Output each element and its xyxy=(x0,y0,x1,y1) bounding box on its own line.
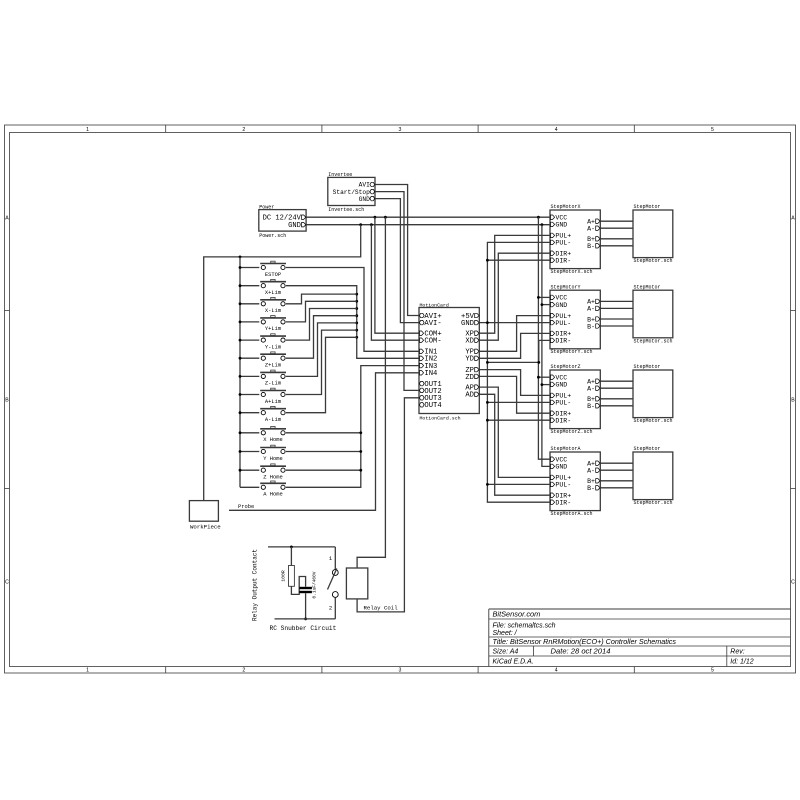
sheet MotionCard xyxy=(419,302,479,421)
svg-text:StepMotor: StepMotor xyxy=(634,284,661,290)
switch Z Home xyxy=(260,464,286,481)
svg-text:MotionCard: MotionCard xyxy=(420,302,449,308)
svg-text:VCC: VCC xyxy=(555,215,567,222)
svg-text:Z+Lim: Z+Lim xyxy=(265,363,281,369)
svg-text:StepMotorA: StepMotorA xyxy=(551,446,581,452)
wire XD to X DIR+ xyxy=(479,253,550,340)
wire YP to Y PUL+ xyxy=(479,316,550,352)
wire Z-Lim tap xyxy=(286,323,357,377)
wire Probe to IN4 xyxy=(229,373,419,511)
wire relay output contact bottom rail xyxy=(275,618,336,620)
svg-text:3: 3 xyxy=(399,127,402,133)
relay output contact switch xyxy=(328,547,339,619)
svg-text:StepMotor: StepMotor xyxy=(634,364,661,370)
svg-text:PUL+: PUL+ xyxy=(555,475,571,482)
wire limit switch bus to IN2 xyxy=(286,286,419,359)
wire Invertee AVI to AVI+ xyxy=(375,185,419,316)
svg-text:GND: GND xyxy=(555,222,567,229)
svg-text:1: 1 xyxy=(86,127,89,133)
svg-text:KiCad E.D.A.: KiCad E.D.A. xyxy=(493,659,534,666)
wire Invertee GND to AVI- xyxy=(375,199,419,323)
svg-text:B-: B- xyxy=(587,243,595,250)
svg-text:A+: A+ xyxy=(587,461,595,468)
svg-text:StepMotor.sch: StepMotor.sch xyxy=(634,418,673,424)
svg-text:X-Lim: X-Lim xyxy=(265,308,281,314)
svg-text:DIR-: DIR- xyxy=(555,258,571,265)
wire Y-Lim tap xyxy=(286,309,357,341)
wire COM+ to +12/24V xyxy=(375,217,419,333)
svg-text:StepMotor.sch: StepMotor.sch xyxy=(634,500,673,506)
svg-text:StepMotorZ.sch: StepMotorZ.sch xyxy=(551,429,593,435)
switch X Home xyxy=(260,427,286,444)
svg-text:A+: A+ xyxy=(587,299,595,306)
svg-text:5: 5 xyxy=(711,127,714,133)
svg-text:Size: A4: Size: A4 xyxy=(493,649,519,656)
switch A Home xyxy=(260,481,286,498)
switch Y Home xyxy=(260,445,286,462)
svg-text:PUL-: PUL- xyxy=(555,320,571,327)
switch Z+Lim xyxy=(260,352,286,369)
svg-text:1: 1 xyxy=(329,555,333,562)
svg-text:A-Lim: A-Lim xyxy=(265,417,281,423)
svg-text:PUL+: PUL+ xyxy=(555,313,571,320)
svg-text:B: B xyxy=(5,398,9,404)
svg-text:COM-: COM- xyxy=(424,338,441,346)
svg-text:VCC: VCC xyxy=(555,457,567,464)
sheet StepMotorX xyxy=(550,204,600,275)
wire motor A A+/A-/B+/B- xyxy=(600,463,633,488)
svg-text:2: 2 xyxy=(242,127,245,133)
svg-text:X Home: X Home xyxy=(263,437,282,443)
svg-text:1: 1 xyxy=(86,668,89,674)
svg-text:DIR+: DIR+ xyxy=(555,251,571,258)
svg-text:Start/Stop: Start/Stop xyxy=(333,189,370,196)
svg-text:RC Snubber Circuit: RC Snubber Circuit xyxy=(270,625,337,632)
svg-text:StepMotorA.sch: StepMotorA.sch xyxy=(551,511,593,517)
svg-text:B+: B+ xyxy=(587,396,595,403)
svg-text:Y+Lim: Y+Lim xyxy=(265,326,281,332)
svg-text:YD: YD xyxy=(465,356,474,364)
switch A+Lim xyxy=(260,388,286,405)
svg-text:XD: XD xyxy=(465,338,474,346)
svg-text:A+: A+ xyxy=(587,219,595,226)
wire YD to Y DIR+ xyxy=(479,333,550,358)
svg-text:A-: A- xyxy=(587,226,595,233)
svg-text:WorkPiece: WorkPiece xyxy=(190,524,221,531)
wire Y+Lim tap xyxy=(286,301,357,322)
wire motor Z A+/A-/B+/B- xyxy=(600,381,633,406)
svg-text:A Home: A Home xyxy=(263,492,282,498)
svg-text:PUL-: PUL- xyxy=(555,482,571,489)
wire ZD to Z DIR+ xyxy=(479,376,550,413)
svg-text:StepMotor: StepMotor xyxy=(634,446,661,452)
border frame xyxy=(5,125,796,674)
svg-text:GND: GND xyxy=(461,320,474,328)
switch X-Lim xyxy=(260,298,286,315)
wire capacitor to bottom rail xyxy=(304,593,307,620)
svg-text:ZD: ZD xyxy=(465,374,474,382)
svg-text:DIR-: DIR- xyxy=(555,500,571,507)
sheet Power xyxy=(259,204,306,238)
switch X+Lim xyxy=(260,279,286,296)
svg-text:2: 2 xyxy=(242,668,245,674)
wire power GND rail xyxy=(306,223,550,226)
svg-text:StepMotorX: StepMotorX xyxy=(551,204,581,210)
relay coil xyxy=(346,568,398,611)
svg-text:Y Home: Y Home xyxy=(263,456,282,462)
svg-text:4: 4 xyxy=(555,127,558,133)
svg-text:DIR+: DIR+ xyxy=(555,411,571,418)
sheet StepMotor (motor Z) xyxy=(633,364,673,424)
svg-text:PUL-: PUL- xyxy=(555,400,571,407)
svg-text:B-: B- xyxy=(587,403,595,410)
svg-text:Z-Lim: Z-Lim xyxy=(265,381,281,387)
wire A+Lim tap xyxy=(286,330,357,394)
svg-text:GND: GND xyxy=(555,464,567,471)
svg-text:ESTOP: ESTOP xyxy=(265,272,281,278)
sheet StepMotor (motor Y) xyxy=(633,284,673,344)
svg-text:A-: A- xyxy=(587,468,595,475)
svg-text:MotionCard.sch: MotionCard.sch xyxy=(420,415,461,421)
wire OUT3 to relay coil xyxy=(357,398,419,612)
svg-text:DIR+: DIR+ xyxy=(555,493,571,500)
capacitor 0.1uF/400V xyxy=(299,571,317,598)
wire resistor to capacitor xyxy=(291,577,305,595)
svg-text:StepMotorZ: StepMotorZ xyxy=(551,364,581,370)
svg-text:DIR+: DIR+ xyxy=(555,331,571,338)
svg-text:4: 4 xyxy=(555,668,558,674)
svg-text:Z Home: Z Home xyxy=(263,475,282,481)
svg-text:DIR-: DIR- xyxy=(555,338,571,345)
svg-text:PUL+: PUL+ xyxy=(555,393,571,400)
svg-text:3: 3 xyxy=(399,668,402,674)
title block xyxy=(489,609,791,667)
wire AP to A PUL+ xyxy=(479,387,550,477)
sheet Invertee xyxy=(328,172,375,213)
svg-text:Id: 1/12: Id: 1/12 xyxy=(730,659,753,666)
resistor 100R xyxy=(280,547,294,586)
svg-text:StepMotor.sch: StepMotor.sch xyxy=(634,338,673,344)
svg-text:VCC: VCC xyxy=(555,295,567,302)
svg-text:A: A xyxy=(791,216,795,222)
wire GND chain to drivers xyxy=(541,225,551,467)
svg-text:VCC: VCC xyxy=(555,375,567,382)
svg-text:A: A xyxy=(5,216,9,222)
wire +12/24V rail xyxy=(306,216,550,219)
svg-text:A+: A+ xyxy=(587,379,595,386)
svg-text:PUL+: PUL+ xyxy=(555,233,571,240)
svg-text:Invertee: Invertee xyxy=(328,172,352,178)
svg-text:DIR-: DIR- xyxy=(555,418,571,425)
svg-text:IN4: IN4 xyxy=(424,370,437,378)
wire ZP to Z PUL+ xyxy=(479,370,550,396)
svg-text:GND: GND xyxy=(359,196,370,203)
switch ESTOP xyxy=(260,261,286,278)
switch Z-Lim xyxy=(260,370,286,387)
wire motor X A+/A-/B+/B- xyxy=(600,221,633,246)
wire relay output contact top rail xyxy=(268,546,335,549)
svg-text:0.1uF/400V: 0.1uF/400V xyxy=(311,571,317,598)
svg-text:Invertee.sch: Invertee.sch xyxy=(328,207,364,213)
wire signal GND chain (PUL-/DIR- common) xyxy=(479,242,550,502)
svg-text:A-: A- xyxy=(587,306,595,313)
switch A-Lim xyxy=(260,406,286,423)
sheet StepMotor (motor A) xyxy=(633,446,673,506)
svg-text:B: B xyxy=(791,398,795,404)
switch Y-Lim xyxy=(260,334,286,351)
svg-text:GND: GND xyxy=(555,302,567,309)
svg-text:Date: 28 oct 2014: Date: 28 oct 2014 xyxy=(551,647,611,656)
svg-text:Title: BitSensor RnRMotion(ECO: Title: BitSensor RnRMotion(ECO+) Control… xyxy=(493,637,677,646)
wire AD to A DIR+ xyxy=(479,394,550,495)
svg-text:A-: A- xyxy=(587,386,595,393)
svg-text:Power: Power xyxy=(259,204,274,210)
sheet StepMotor (motor X) xyxy=(633,204,673,264)
svg-text:GND: GND xyxy=(555,382,567,389)
wire Z+Lim tap xyxy=(286,316,357,359)
svg-text:StepMotorY.sch: StepMotorY.sch xyxy=(551,349,593,355)
svg-text:File: schemaltcs.sch: File: schemaltcs.sch xyxy=(493,623,556,630)
wire left bus xyxy=(239,257,260,487)
switch Y+Lim xyxy=(260,316,286,333)
svg-text:StepMotor.sch: StepMotor.sch xyxy=(634,258,673,264)
sheet StepMotorA xyxy=(550,446,600,517)
wire motor Y A+/A-/B+/B- xyxy=(600,301,633,326)
wire ESTOP to IN1 xyxy=(286,268,419,352)
sheet StepMotorZ xyxy=(550,364,600,435)
svg-text:OUT4: OUT4 xyxy=(424,402,441,410)
wire GND rail to switch bus and WorkPiece xyxy=(204,225,361,501)
svg-text:AVI-: AVI- xyxy=(424,320,441,328)
svg-text:5: 5 xyxy=(711,668,714,674)
wire XP to X PUL+ xyxy=(479,235,550,333)
wire A-Lim tap xyxy=(286,337,357,412)
wire VCC chain to drivers xyxy=(537,217,550,459)
svg-text:Probe: Probe xyxy=(238,504,254,510)
svg-text:Relay Coil: Relay Coil xyxy=(364,604,399,611)
svg-text:PUL-: PUL- xyxy=(555,240,571,247)
svg-text:B-: B- xyxy=(587,323,595,330)
wire COM- to GND xyxy=(371,225,419,341)
svg-text:GND: GND xyxy=(288,222,301,230)
sheet StepMotorY xyxy=(550,284,600,355)
svg-text:AD: AD xyxy=(465,392,474,400)
wire X-Lim tap xyxy=(286,294,357,304)
svg-text:C: C xyxy=(5,580,9,586)
svg-text:B-: B- xyxy=(587,485,595,492)
svg-text:A+Lim: A+Lim xyxy=(265,399,281,405)
svg-text:Power.sch: Power.sch xyxy=(259,233,286,239)
svg-text:2: 2 xyxy=(329,604,332,611)
svg-text:C: C xyxy=(791,580,795,586)
wire Invertee Start/Stop to OUT2 xyxy=(375,192,419,391)
svg-text:BitSensor.com: BitSensor.com xyxy=(493,610,541,619)
wire home switch bus to IN3 xyxy=(286,366,419,488)
svg-text:B+: B+ xyxy=(587,478,595,485)
svg-text:AVI: AVI xyxy=(359,182,370,189)
svg-text:B+: B+ xyxy=(587,236,595,243)
svg-text:Y-Lim: Y-Lim xyxy=(265,344,281,350)
svg-text:StepMotorX.sch: StepMotorX.sch xyxy=(551,269,593,275)
svg-text:StepMotorY: StepMotorY xyxy=(551,284,581,290)
svg-text:Relay Output Contact: Relay Output Contact xyxy=(252,549,259,621)
svg-text:100R: 100R xyxy=(280,570,286,582)
svg-text:B+: B+ xyxy=(587,316,595,323)
svg-text:StepMotor: StepMotor xyxy=(634,204,661,210)
svg-text:Rev:: Rev: xyxy=(730,649,744,656)
wire +12/24V to relay coil xyxy=(357,217,385,568)
svg-text:X+Lim: X+Lim xyxy=(265,290,281,296)
sheet WorkPiece xyxy=(189,501,221,531)
